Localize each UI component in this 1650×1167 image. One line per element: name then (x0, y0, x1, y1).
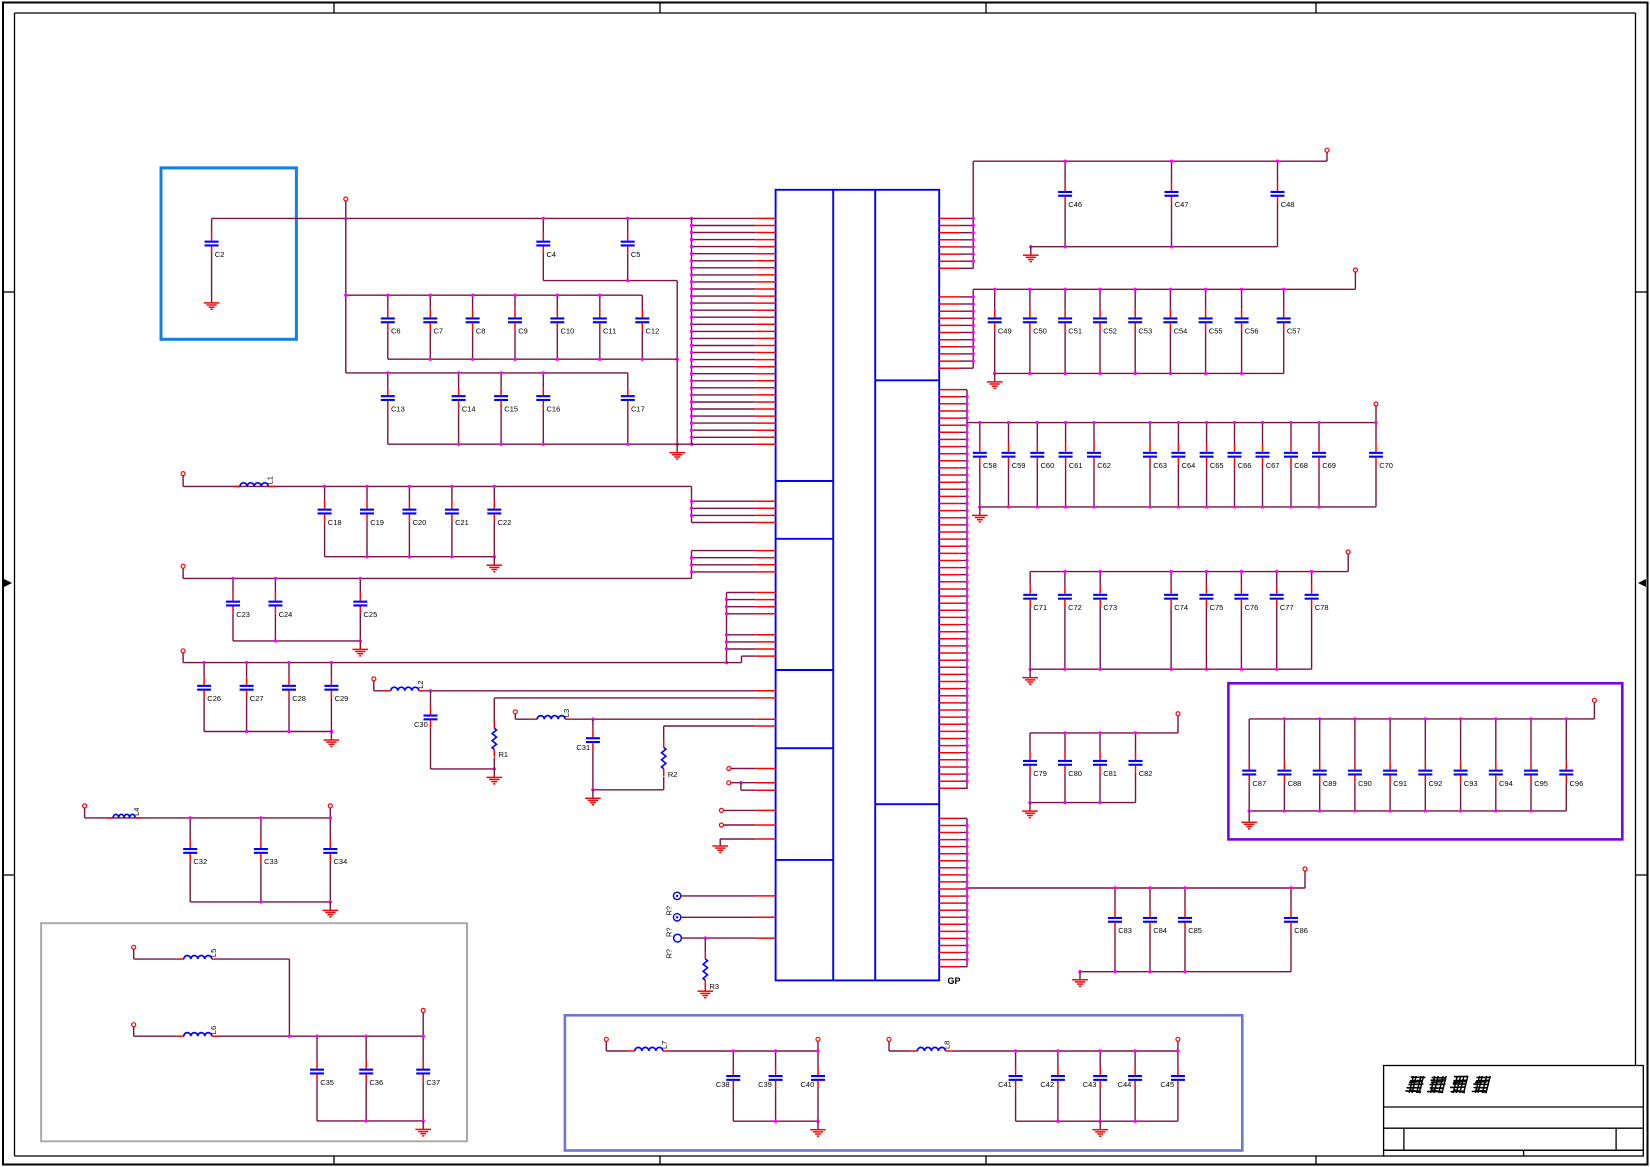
ground (1241, 822, 1257, 829)
pin (right) (939, 552, 967, 554)
svg-text:C48: C48 (1281, 200, 1295, 209)
junction (690, 316, 693, 319)
svg-text:C81: C81 (1103, 769, 1117, 778)
junction (972, 231, 975, 234)
pin (right) (939, 574, 967, 576)
junction (1056, 1049, 1059, 1052)
pin (right) (939, 952, 967, 954)
pin (right) (939, 773, 967, 775)
junction (690, 266, 693, 269)
wire (494, 697, 755, 699)
wire (1030, 732, 1178, 734)
inductor L8 (910, 1041, 952, 1051)
pin (right) (939, 916, 967, 918)
svg-text:L1: L1 (265, 476, 274, 484)
junction (965, 495, 968, 498)
ground (1092, 1130, 1108, 1137)
capacitor C87 (1242, 719, 1266, 811)
pin (right) (939, 332, 974, 334)
capacitor C35 (310, 1036, 334, 1121)
highlight box (blue-violet, bottom-center) (565, 1015, 1242, 1150)
junction (429, 294, 432, 297)
pin (right) (939, 860, 967, 862)
wire (952, 1050, 1178, 1052)
svg-text:C36: C36 (369, 1078, 383, 1087)
junction (1063, 160, 1066, 163)
junction (690, 414, 693, 417)
pin (right) (939, 560, 967, 562)
junction (1063, 570, 1066, 573)
junction (408, 485, 411, 488)
pin (left) (692, 387, 777, 389)
capacitor C7 (423, 295, 443, 359)
junction (471, 358, 474, 361)
junction (365, 1119, 368, 1122)
wire (995, 372, 1284, 374)
capacitor C77 (1270, 572, 1294, 670)
capacitor C28 (282, 663, 306, 732)
junction (690, 238, 693, 241)
svg-text:C24: C24 (279, 610, 293, 619)
capacitor C34 (323, 818, 347, 902)
junction (690, 421, 693, 424)
junction (386, 294, 389, 297)
junction (690, 365, 693, 368)
pin (left) (692, 401, 777, 403)
pin (right) (939, 474, 967, 476)
junction (1099, 1049, 1102, 1052)
svg-text:C45: C45 (1160, 1080, 1174, 1089)
wire (740, 783, 742, 791)
junction (965, 431, 968, 434)
capacitor C8 (466, 295, 486, 359)
port terminal (719, 823, 723, 827)
ground (669, 453, 685, 459)
wire (426, 690, 431, 692)
wire (493, 769, 495, 778)
resistor R3 (703, 952, 719, 991)
pin (left) (692, 253, 777, 255)
junction (457, 371, 460, 374)
wire (182, 653, 184, 663)
pin (left) (755, 718, 776, 720)
pin (right) (939, 716, 967, 718)
junction (1148, 886, 1151, 889)
junction (965, 594, 968, 597)
capacitor C30 (414, 691, 438, 769)
capacitor C25 (353, 578, 377, 641)
junction (1099, 570, 1102, 573)
junction (450, 555, 453, 558)
junction (690, 570, 693, 573)
capacitor C95 (1524, 719, 1548, 811)
junction (245, 730, 248, 733)
capacitor C11 (593, 295, 616, 359)
capacitor C62 (1087, 423, 1111, 507)
capacitor C16 (536, 373, 560, 444)
svg-text:C79: C79 (1033, 769, 1047, 778)
junction (972, 302, 975, 305)
wire (966, 818, 968, 966)
junction (690, 507, 693, 510)
wire (359, 641, 361, 650)
junction (690, 224, 693, 227)
capacitor C12 (635, 295, 659, 359)
pin (left) (755, 937, 776, 939)
pin (right) (939, 217, 974, 219)
wire (211, 253, 213, 303)
svg-text:C23: C23 (236, 610, 250, 619)
pin (right) (939, 966, 967, 968)
svg-text:C84: C84 (1153, 926, 1167, 935)
svg-text:C65: C65 (1210, 461, 1224, 470)
wire (85, 817, 331, 819)
pin (right) (939, 410, 967, 412)
junction (965, 824, 968, 827)
wire (190, 901, 330, 903)
pin (right) (939, 396, 967, 398)
junction (972, 238, 975, 241)
pin (left) (692, 564, 777, 566)
wire (431, 690, 756, 692)
junction (1424, 717, 1427, 720)
svg-text:C35: C35 (320, 1078, 334, 1087)
pin (right) (939, 417, 967, 419)
junction (690, 514, 693, 517)
capacitor C88 (1277, 719, 1301, 811)
junction (676, 358, 679, 361)
junction (259, 816, 262, 819)
svg-text:C54: C54 (1174, 327, 1188, 336)
wire (374, 690, 384, 692)
pin (right) (939, 267, 974, 269)
junction (274, 577, 277, 580)
pin (right) (939, 895, 967, 897)
pin (right) (939, 531, 967, 533)
junction (1007, 421, 1010, 424)
pin (right) (939, 453, 967, 455)
wire (973, 160, 1327, 162)
junction (1353, 717, 1356, 720)
port terminal (1325, 148, 1329, 152)
svg-text:C56: C56 (1245, 327, 1259, 336)
port terminal (1353, 268, 1357, 272)
svg-text:C25: C25 (364, 610, 378, 619)
junction (1183, 886, 1186, 889)
junction (1148, 970, 1151, 973)
junction (690, 563, 693, 566)
pin (left) (755, 782, 776, 784)
wire (1249, 810, 1566, 812)
capacitor C69 (1312, 423, 1336, 507)
junction (1169, 668, 1172, 671)
junction (542, 217, 545, 220)
wire (817, 1041, 819, 1051)
junction (1134, 731, 1137, 734)
svg-text:C96: C96 (1570, 779, 1584, 788)
wire (1347, 554, 1349, 572)
pin (left) (692, 500, 777, 502)
junction (965, 765, 968, 768)
capacitor C39 (758, 1051, 783, 1121)
socket terminal (double circle) (673, 914, 680, 921)
svg-text:C47: C47 (1175, 200, 1189, 209)
junction (1063, 731, 1066, 734)
junction (1233, 505, 1236, 508)
capacitor C42 (1040, 1051, 1065, 1121)
junction (288, 1035, 291, 1038)
wire (724, 824, 756, 826)
wire (1248, 811, 1250, 822)
pin (right) (939, 766, 967, 768)
junction (1289, 886, 1292, 889)
port terminal (513, 710, 517, 714)
wire (288, 959, 290, 1036)
svg-text:C43: C43 (1083, 1080, 1097, 1089)
junction (499, 443, 502, 446)
junction (1134, 372, 1137, 375)
port terminal (181, 649, 185, 653)
svg-text:C15: C15 (504, 404, 518, 413)
svg-text:C29: C29 (335, 694, 349, 703)
svg-text:R2: R2 (668, 770, 678, 779)
pin (left) (727, 613, 777, 615)
pin (right) (939, 360, 974, 362)
junction (1098, 731, 1101, 734)
port terminal (328, 804, 332, 808)
capacitor C79 (1023, 733, 1047, 803)
pin (right) (939, 959, 967, 961)
wire (233, 640, 360, 642)
ground (585, 798, 601, 805)
junction (330, 661, 333, 664)
junction (690, 344, 693, 347)
junction (690, 358, 693, 361)
junction (965, 602, 968, 605)
capacitor C56 (1235, 289, 1259, 373)
junction (259, 900, 262, 903)
pin (right) (939, 659, 967, 661)
wire (817, 1121, 819, 1130)
capacitor C19 (360, 486, 384, 556)
junction (1233, 421, 1236, 424)
wire (1099, 1121, 1101, 1130)
junction (965, 644, 968, 647)
capacitor C59 (1002, 423, 1026, 507)
junction (965, 395, 968, 398)
capacitor C47 (1165, 161, 1189, 247)
junction (457, 443, 460, 446)
wire (543, 280, 677, 282)
junction (189, 816, 192, 819)
label company name (1405, 1076, 1490, 1093)
wire (720, 838, 755, 840)
capacitor C23 (226, 578, 250, 641)
wire (1029, 803, 1031, 812)
junction (1240, 372, 1243, 375)
svg-text:C55: C55 (1209, 327, 1223, 336)
pin (right) (939, 673, 967, 675)
junction (972, 338, 975, 341)
wire (664, 725, 756, 727)
junction (690, 301, 693, 304)
junction (972, 260, 975, 263)
svg-text:C62: C62 (1097, 461, 1111, 470)
ground (1022, 811, 1038, 818)
pin (left) (692, 366, 777, 368)
wire (973, 288, 1355, 290)
junction (365, 1035, 368, 1038)
svg-text:L4: L4 (132, 808, 141, 816)
junction (978, 505, 981, 508)
svg-text:C52: C52 (1103, 327, 1117, 336)
pin (right) (939, 545, 967, 547)
wire (219, 958, 290, 960)
junction (690, 323, 693, 326)
svg-text:C86: C86 (1294, 926, 1308, 935)
wire (726, 593, 728, 663)
junction (965, 838, 968, 841)
pin (right) (939, 510, 967, 512)
junction (1282, 288, 1285, 291)
junction (1063, 372, 1066, 375)
wire (691, 551, 693, 579)
junction (1092, 505, 1095, 508)
junction (690, 379, 693, 382)
pin (left) (755, 697, 776, 699)
pin (left) (692, 415, 777, 417)
pin (right) (939, 232, 974, 234)
pin (right) (939, 609, 967, 611)
junction (965, 616, 968, 619)
junction (965, 466, 968, 469)
inductor L7 (628, 1041, 670, 1051)
svg-text:C63: C63 (1153, 461, 1167, 470)
pin (right) (939, 524, 967, 526)
svg-text:C93: C93 (1464, 779, 1478, 788)
wire (691, 218, 693, 444)
capacitor C14 (452, 373, 476, 444)
junction (965, 859, 968, 862)
svg-text:C4: C4 (547, 250, 557, 259)
junction (690, 393, 693, 396)
capacitor C63 (1143, 423, 1167, 507)
pin (right) (939, 581, 967, 583)
pin (left) (692, 514, 777, 516)
port terminal (816, 1037, 820, 1041)
pin (left) (727, 592, 777, 594)
svg-text:R?: R? (665, 927, 674, 937)
junction (1276, 160, 1279, 163)
junction (1459, 809, 1462, 812)
inductor L6 (177, 1026, 219, 1036)
junction (1098, 372, 1101, 375)
junction (1176, 1049, 1179, 1052)
junction (287, 661, 290, 664)
svg-text:C88: C88 (1288, 779, 1302, 788)
pin (left) (692, 281, 777, 283)
pin (left) (692, 436, 777, 438)
svg-text:C82: C82 (1139, 769, 1153, 778)
junction (725, 640, 728, 643)
capacitor C10 (550, 295, 574, 359)
svg-text:C78: C78 (1315, 603, 1329, 612)
junction (965, 559, 968, 562)
wire (1031, 246, 1278, 248)
junction (972, 310, 975, 313)
pin (right) (939, 832, 967, 834)
wire (727, 662, 742, 664)
svg-text:C31: C31 (576, 743, 590, 752)
pin (right) (939, 246, 974, 248)
junction (965, 516, 968, 519)
svg-text:C87: C87 (1252, 779, 1266, 788)
capacitor C73 (1093, 572, 1117, 670)
junction (965, 523, 968, 526)
capacitor C64 (1171, 423, 1195, 507)
wire (84, 808, 86, 818)
junction (725, 605, 728, 608)
capacitor C90 (1348, 719, 1372, 811)
wire (493, 557, 495, 566)
junction (816, 1120, 819, 1123)
junction (965, 715, 968, 718)
junction (1275, 668, 1278, 671)
svg-text:C41: C41 (998, 1080, 1012, 1089)
junction (1565, 717, 1568, 720)
pin (right) (939, 389, 967, 391)
junction (690, 372, 693, 375)
wire (889, 1050, 910, 1052)
svg-text:R?: R? (665, 949, 674, 959)
pin (right) (939, 631, 967, 633)
svg-text:L7: L7 (660, 1041, 669, 1049)
junction (965, 780, 968, 783)
pin (left) (692, 267, 777, 269)
junction (965, 438, 968, 441)
svg-text:C66: C66 (1238, 461, 1252, 470)
junction (1064, 505, 1067, 508)
pin (right) (939, 467, 967, 469)
wire (388, 443, 692, 445)
junction (245, 661, 248, 664)
junction (1388, 717, 1391, 720)
junction (1169, 288, 1172, 291)
capacitor C67 (1256, 423, 1280, 507)
pin (right) (939, 253, 974, 255)
junction (965, 916, 968, 919)
junction (972, 295, 975, 298)
wire (1326, 152, 1328, 161)
junction (365, 555, 368, 558)
junction (965, 566, 968, 569)
junction (965, 930, 968, 933)
junction (1424, 809, 1427, 812)
wire (1304, 871, 1306, 888)
pin (right) (939, 681, 967, 683)
junction (965, 609, 968, 612)
wire (431, 768, 495, 770)
junction (1036, 505, 1039, 508)
pin (left) (692, 394, 777, 396)
capacitor C37 (416, 1036, 440, 1121)
junction (690, 245, 693, 248)
junction (739, 781, 742, 784)
wire (967, 887, 1305, 889)
junction (965, 545, 968, 548)
pin (left) (692, 323, 777, 325)
wire (493, 757, 495, 769)
